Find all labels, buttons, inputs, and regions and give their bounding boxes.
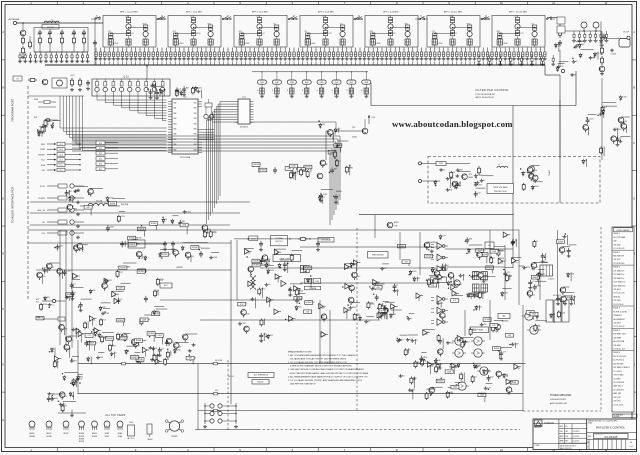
transistor Q4 (185, 252, 191, 258)
trimmer capacitor C47 (236, 48, 238, 53)
svg-text:ALC: ALC (164, 284, 168, 287)
svg-text:RLB1: RLB1 (260, 82, 264, 84)
ground G59 (152, 347, 154, 349)
component box U106 (155, 334, 163, 338)
svg-text:G: G (2, 362, 4, 366)
svg-text:MY8007: MY8007 (120, 338, 126, 340)
ground (87, 60, 89, 62)
svg-text:C74 WAS 10n: C74 WAS 10n (613, 273, 624, 276)
wire W135 (451, 283, 462, 285)
wire W88 (42, 275, 44, 284)
resistor R59 (101, 335, 103, 337)
svg-text:WAS (M1 &: WAS (M1 & (613, 385, 623, 388)
ground (385, 57, 387, 59)
trimmer capacitor C14 (87, 52, 89, 54)
capacitor C139 (331, 168, 333, 171)
component box U81 (436, 379, 444, 383)
wire W67 (310, 278, 312, 289)
trimmer capacitor C102 (478, 48, 480, 53)
ground (539, 57, 541, 59)
trimmer capacitor C110 (513, 48, 515, 53)
over voltage protection dashed outline (428, 157, 600, 204)
svg-text:BC848: BC848 (151, 223, 156, 225)
wire W106 (69, 347, 71, 358)
svg-text:2N5484: 2N5484 (29, 436, 35, 438)
ground (531, 57, 533, 59)
relay driver transistor Q13h (153, 79, 155, 82)
capacitor C178 (568, 248, 570, 251)
wire relay driver fanout 4 (121, 96, 123, 108)
wire W40 (291, 167, 293, 176)
svg-text:L2: L2 (401, 339, 403, 341)
fuse F7 (120, 363, 122, 365)
svg-text:P2: P2 (16, 79, 18, 81)
wire W223 (159, 90, 161, 97)
wire control bundle 3 (65, 96, 67, 134)
component box U9 (84, 206, 92, 210)
wire W238 (626, 126, 628, 133)
wire W87 (380, 285, 382, 290)
capacitor C150 (289, 287, 291, 290)
capacitor C52 filter col2 (390, 16, 392, 18)
trimmer capacitor C96 (451, 48, 453, 53)
diode D27 (125, 349, 127, 351)
transistor Q34 (478, 272, 484, 278)
svg-text:R104: R104 (75, 329, 79, 331)
pot VR1 (334, 150, 336, 152)
svg-text:R: R (257, 90, 258, 92)
svg-text:C315: C315 (242, 323, 246, 325)
wire W138 (498, 257, 504, 259)
wire supply rail 2 (78, 393, 523, 395)
transistor Q31 (57, 268, 63, 274)
transformer T2 gain (251, 277, 253, 281)
wire W208 (53, 393, 65, 395)
svg-text:D3: D3 (402, 376, 404, 378)
ground (355, 57, 357, 59)
ground (240, 57, 242, 59)
trimmer capacitor C42 (214, 48, 216, 53)
ground (542, 63, 544, 65)
diode D37 (467, 293, 469, 295)
ground (337, 57, 339, 59)
svg-text:CL6: CL6 (60, 170, 63, 172)
wire control bundle 7 (78, 96, 80, 147)
wire W15 (172, 215, 178, 217)
transistor Q46 (559, 247, 565, 253)
wire W25 (186, 223, 188, 234)
resistor R6 input filter (61, 36, 63, 38)
svg-text:L2: L2 (339, 160, 341, 162)
svg-text:C108: C108 (105, 313, 109, 315)
component box U82 (451, 299, 459, 303)
component box U102 (186, 356, 194, 360)
ground (261, 95, 263, 97)
inductor L23 filter (210, 30, 212, 31)
ground (399, 57, 401, 59)
svg-text:BC848: BC848 (136, 340, 141, 342)
op-amp U7 (104, 278, 109, 283)
svg-text:R67: R67 (303, 170, 306, 172)
wire W64 (290, 283, 302, 285)
ground G54 (48, 392, 50, 394)
wire W177 (421, 352, 426, 354)
wire antenna feed (17, 22, 103, 24)
capacitor C179 (48, 396, 50, 399)
wire W220 (163, 89, 165, 97)
wire W172 (455, 381, 463, 383)
resistor R29 (100, 318, 102, 320)
diode D40 (483, 369, 485, 371)
wire W2 (52, 120, 60, 122)
resistor R2 (45, 119, 47, 121)
svg-text:C315: C315 (412, 271, 416, 273)
svg-text:Rx I/P: Rx I/P (624, 32, 630, 34)
svg-text:POWER AMPLIFIER: POWER AMPLIFIER (550, 394, 572, 397)
wire bottom link (195, 429, 258, 431)
wire W166 (412, 388, 414, 399)
ground (29, 60, 31, 62)
resistor R53 (558, 310, 560, 312)
wire W95 (80, 334, 82, 343)
wire W74 (351, 302, 361, 304)
resistor R58 (154, 354, 156, 356)
transistor Q20 (581, 22, 587, 28)
relay K3a contact (226, 18, 228, 20)
resistor network group 7 (350, 84, 352, 88)
wire W84 (397, 289, 399, 296)
transistor Q42 (434, 271, 440, 277)
wire W19 (183, 242, 195, 244)
wire W204 (64, 371, 78, 373)
wire W27 (90, 206, 92, 216)
diode D22 (307, 278, 309, 280)
wire W100 (153, 332, 155, 342)
wire W142 (478, 305, 480, 311)
trimmer capacitor C117 (544, 48, 546, 53)
IC U2 synthesiser MC145170 (238, 99, 250, 124)
transistor Q53 (182, 334, 188, 340)
trimmer capacitor C83 (394, 48, 396, 53)
choke L2 (497, 166, 508, 168)
svg-text:L2: L2 (498, 164, 500, 166)
ground (605, 39, 607, 41)
component box U7 (180, 223, 188, 227)
op-amp U79 (514, 364, 519, 369)
transistor Q14 (527, 167, 533, 173)
ground (227, 57, 229, 59)
ground (487, 57, 489, 59)
wire BPF1 rail b (111, 33, 129, 35)
svg-text:R210: R210 (357, 315, 361, 317)
diode D65 (557, 66, 559, 68)
transistor Q13 (529, 173, 535, 179)
ground G52 (536, 315, 538, 317)
balance pot (498, 314, 510, 319)
component box U48 (152, 312, 160, 316)
svg-text:R45: R45 (477, 293, 480, 295)
transistor Q32 (506, 387, 512, 393)
wire W78 (382, 263, 389, 265)
ground (365, 95, 367, 97)
op-amp U92 (416, 293, 421, 298)
ground (306, 95, 308, 97)
trimmer capacitor C27 (148, 48, 150, 53)
transistor Q47 (560, 287, 566, 293)
resistor R2 input chain (22, 46, 24, 48)
svg-text:C4: C4 (131, 33, 133, 35)
capacitor C149 (296, 297, 298, 300)
resistor R39 (492, 324, 494, 326)
ground G17 (251, 297, 253, 299)
relay driver transistor Q13b (104, 79, 106, 82)
relay coil RLB6 (336, 71, 337, 72)
output coupling capacitor (603, 34, 605, 37)
svg-text:R14 & 5/52 DEL.: R14 & 5/52 DEL. (613, 356, 627, 358)
svg-text:R210: R210 (477, 365, 481, 367)
svg-text:FILTER & CNTRL: FILTER & CNTRL (613, 311, 627, 313)
trimmer capacitor C104 (487, 48, 489, 53)
trimmer capacitor C74 (355, 48, 357, 53)
inductor L42 filter (325, 23, 327, 24)
resistor R65 (600, 147, 602, 149)
wire W38 (258, 163, 260, 173)
wire W137 (469, 244, 482, 246)
diode D8 (182, 246, 184, 248)
wire BPF feed column (94, 18, 96, 66)
capacitor C140 (320, 193, 322, 196)
filter pack col3 (532, 39, 537, 45)
capacitor C184 (183, 86, 185, 89)
svg-text:C77: C77 (322, 197, 325, 199)
capacitor C175 (529, 280, 531, 283)
wire W167 (484, 393, 486, 402)
ground G50 (431, 250, 433, 252)
diode D55 (63, 375, 65, 377)
transistor Q9 (320, 160, 326, 166)
diode D61 (195, 86, 197, 88)
driver gate U22 (437, 266, 443, 273)
resistor R21 (367, 301, 369, 303)
transistor Q33 (495, 324, 501, 330)
svg-text:4x-78643: 4x-78643 (310, 43, 316, 45)
wire W176 (505, 267, 513, 269)
wire to oscillator cluster (325, 131, 327, 160)
component box U97 (490, 324, 498, 328)
diode D11 (319, 123, 321, 125)
wire W236 (588, 114, 597, 116)
component box U87 (445, 370, 453, 374)
ground (284, 57, 286, 59)
component box filter select (557, 17, 565, 24)
trimmer capacitor C1 (19, 52, 21, 54)
svg-text:R104: R104 (299, 290, 303, 292)
svg-text:R210: R210 (110, 227, 114, 229)
wire center vertical B (236, 240, 238, 300)
ground G64 (573, 60, 575, 62)
oscillator cap CA (204, 114, 208, 118)
capacitor C171 (466, 237, 468, 240)
svg-text:29-OP-87: 29-OP-87 (573, 431, 580, 433)
trimmer capacitor C30 (161, 48, 163, 53)
svg-text:R30: R30 (588, 436, 591, 438)
ground G28 (97, 356, 99, 358)
svg-text:F4 FUSE: F4 FUSE (215, 360, 223, 362)
wire W8 (143, 227, 145, 237)
ground G36 (483, 279, 485, 281)
ground G27 (66, 296, 68, 298)
resistor R51 (534, 324, 536, 326)
svg-text:www.aboutcodan.blogspot.com: www.aboutcodan.blogspot.com (392, 119, 513, 129)
svg-text:C22: C22 (537, 326, 540, 328)
wire W146 (432, 386, 443, 388)
ground G16 (265, 283, 267, 285)
relay K1b contact (157, 18, 159, 20)
svg-text:Q7: Q7 (467, 341, 469, 343)
wire W102 (69, 296, 71, 301)
svg-text:L2: L2 (525, 172, 527, 174)
wire W93 (152, 346, 154, 355)
svg-text:BD681: BD681 (469, 177, 474, 179)
relay coil RLB2 (276, 71, 277, 72)
ground (451, 57, 453, 59)
svg-text:R104: R104 (617, 129, 621, 131)
resistor R34 (461, 341, 463, 343)
ground G35 (476, 365, 478, 367)
svg-text:01-07-85: 01-07-85 (573, 441, 579, 443)
capacitor C185 (176, 87, 178, 90)
resistor R64 (602, 106, 604, 108)
ground G53 (523, 266, 525, 268)
ground (350, 57, 352, 59)
wire W147 (445, 264, 447, 271)
component box U101 (530, 312, 538, 316)
resistor R48 (428, 278, 430, 280)
capacitor C61 (172, 241, 174, 244)
wire bus end drop (544, 65, 546, 75)
wire W24 (141, 254, 143, 259)
wire W189 (553, 313, 555, 323)
capacitor C43 filter (325, 28, 327, 31)
wire BPF7 rail a (518, 27, 535, 29)
trimmer capacitor C107 (500, 48, 502, 53)
svg-text:SDA: SDA (41, 164, 46, 167)
svg-text:BPF 1 1.6-2.5 MHz: BPF 1 1.6-2.5 MHz (120, 12, 138, 14)
trimmer capacitor C89 (421, 48, 423, 53)
resistor R49 (435, 365, 437, 367)
transistor Q2 (202, 225, 208, 231)
capacitor C154 (85, 340, 87, 343)
wire BPF7 rail b (500, 33, 518, 35)
component box U12 (304, 165, 312, 169)
svg-text:R67: R67 (293, 173, 296, 175)
svg-text:R: R (362, 90, 363, 92)
issue change table (612, 227, 634, 412)
trimmer capacitor C22 (126, 48, 128, 53)
wire W91 (118, 266, 131, 268)
ground (139, 57, 141, 59)
wire synth feed (30, 201, 250, 203)
wire W209 (63, 400, 77, 402)
ground (45, 60, 47, 62)
svg-text:BC848: BC848 (192, 247, 197, 249)
diode D47 (474, 364, 476, 366)
trimmer capacitor C91 (429, 48, 431, 53)
svg-text:4xFT6302: 4xFT6302 (47, 27, 54, 29)
ground G23 (394, 289, 396, 291)
svg-text:Q7: Q7 (262, 33, 264, 35)
wire W83 (385, 301, 395, 303)
svg-text:C77: C77 (442, 236, 445, 238)
ground (262, 57, 264, 59)
trimmer capacitor C9 (61, 52, 63, 54)
svg-text:BPF 5 8-12 MHz: BPF 5 8-12 MHz (383, 12, 398, 14)
component box U46 (87, 341, 95, 345)
ground (236, 57, 238, 59)
ground (183, 57, 185, 59)
wire W203 (73, 392, 75, 400)
wire W68 (375, 282, 377, 290)
wire W3 (41, 132, 43, 137)
svg-text:E: E (2, 252, 4, 256)
svg-text:R210: R210 (349, 168, 353, 170)
svg-text:RB0: RB0 (194, 103, 197, 105)
package outline BCA6 (117, 421, 123, 427)
component box U88 (429, 283, 437, 287)
svg-text:MY8007: MY8007 (118, 320, 124, 322)
svg-text:R45: R45 (431, 280, 434, 282)
wire W240 (617, 128, 619, 139)
component box U40 (379, 309, 387, 313)
relay K6b contact (481, 18, 483, 20)
capacitor C12 filter col2 (128, 16, 130, 18)
ground (489, 63, 491, 65)
inductor L63 filter (469, 30, 471, 31)
svg-text:C/R 5740: C/R 5740 (613, 397, 620, 399)
op-amp U78 (451, 363, 456, 368)
component box U44 (66, 293, 74, 297)
diode D60 (180, 91, 182, 93)
capacitor C161 (64, 270, 66, 273)
ground (152, 57, 154, 59)
svg-text:BF245: BF245 (64, 433, 69, 435)
resistor R10A (298, 238, 301, 240)
wire W141 (502, 287, 511, 289)
title block left cells (533, 423, 559, 425)
resistor network group 4 (306, 84, 308, 88)
ground (578, 39, 580, 41)
output transistor Q62 (474, 337, 482, 345)
ground (245, 57, 247, 59)
svg-text:RLB8: RLB8 (364, 82, 368, 84)
svg-text:C22: C22 (440, 303, 443, 305)
dashed PA boundary (523, 410, 601, 412)
wire W116 (62, 271, 64, 279)
wire W165 (509, 274, 511, 280)
ground G11 (440, 168, 442, 170)
transistor Q25 (46, 263, 52, 269)
op-amp U18 (321, 332, 326, 337)
svg-text:C108: C108 (478, 175, 482, 177)
svg-text:PCB ASSY: PCB ASSY (613, 314, 622, 317)
wire W47 (482, 175, 494, 177)
transistor Q48 ACMU (387, 222, 393, 228)
trimmer capacitor C51 (253, 48, 255, 53)
ground (368, 57, 370, 59)
resistor R40 (28, 79, 30, 81)
svg-text:L2: L2 (483, 180, 485, 182)
component box U2 (150, 222, 158, 226)
